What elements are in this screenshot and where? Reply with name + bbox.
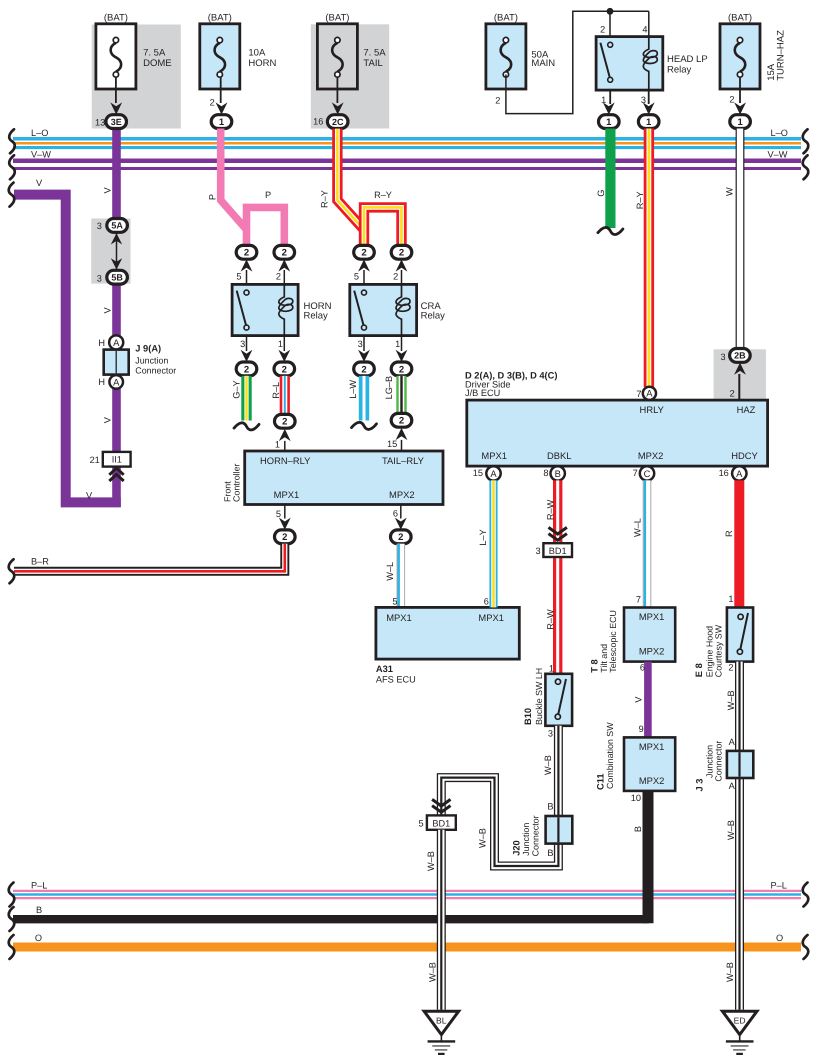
svg-text:W–L: W–L <box>633 518 643 537</box>
svg-text:(BAT): (BAT) <box>104 13 128 24</box>
svg-text:5B: 5B <box>111 272 123 282</box>
svg-text:2: 2 <box>282 364 287 375</box>
svg-text:Relay: Relay <box>304 310 329 321</box>
svg-text:8: 8 <box>543 468 548 478</box>
svg-text:V: V <box>102 416 112 423</box>
svg-text:4: 4 <box>642 24 647 34</box>
svg-text:TAIL–RLY: TAIL–RLY <box>382 455 425 466</box>
svg-text:HORN: HORN <box>248 58 276 69</box>
svg-text:HAZ: HAZ <box>737 404 756 415</box>
svg-text:B: B <box>547 802 553 812</box>
svg-text:3: 3 <box>548 728 553 738</box>
svg-text:1: 1 <box>646 117 652 128</box>
svg-text:J 9(A): J 9(A) <box>135 344 161 354</box>
svg-text:2: 2 <box>399 364 404 375</box>
svg-text:B: B <box>36 905 42 915</box>
svg-text:(BAT): (BAT) <box>494 13 518 24</box>
svg-text:R–Y: R–Y <box>374 190 392 200</box>
svg-text:H: H <box>98 377 105 387</box>
svg-text:1: 1 <box>606 117 612 128</box>
svg-text:MPX1: MPX1 <box>639 611 665 622</box>
svg-text:HRLY: HRLY <box>640 404 665 415</box>
svg-text:2: 2 <box>244 248 249 259</box>
svg-text:7: 7 <box>636 595 641 605</box>
svg-text:Junction: Junction <box>135 356 168 366</box>
svg-text:A: A <box>113 376 120 387</box>
svg-text:2: 2 <box>730 388 735 398</box>
svg-text:10: 10 <box>631 793 641 803</box>
svg-text:MPX2: MPX2 <box>639 775 665 786</box>
svg-text:W–B: W–B <box>428 962 438 982</box>
svg-text:2: 2 <box>244 364 249 375</box>
svg-text:2: 2 <box>600 24 605 34</box>
svg-text:B–R: B–R <box>31 557 49 567</box>
svg-text:MPX2: MPX2 <box>638 450 664 461</box>
svg-text:W–B: W–B <box>726 820 736 840</box>
svg-text:Controller: Controller <box>232 463 242 502</box>
svg-text:W–B: W–B <box>543 755 553 775</box>
svg-text:L–Y: L–Y <box>478 529 488 545</box>
svg-text:Connector: Connector <box>714 741 724 782</box>
svg-text:DOME: DOME <box>143 58 172 69</box>
svg-text:5A: 5A <box>111 221 123 231</box>
svg-text:1: 1 <box>737 117 743 128</box>
svg-text:1: 1 <box>728 594 733 604</box>
svg-text:Buckle SW LH: Buckle SW LH <box>534 668 544 725</box>
svg-text:3: 3 <box>97 221 102 231</box>
svg-text:6: 6 <box>640 663 645 673</box>
svg-text:TAIL: TAIL <box>363 58 382 69</box>
svg-text:DBKL: DBKL <box>547 450 572 461</box>
svg-text:W–B: W–B <box>725 962 735 982</box>
svg-text:3: 3 <box>720 352 725 362</box>
svg-text:2: 2 <box>282 248 287 259</box>
svg-text:9: 9 <box>639 724 644 734</box>
svg-text:15: 15 <box>473 468 483 478</box>
svg-text:MPX1: MPX1 <box>481 450 507 461</box>
svg-text:B: B <box>633 826 643 832</box>
svg-text:W–B: W–B <box>426 851 436 871</box>
svg-text:B10: B10 <box>523 708 533 725</box>
svg-text:A31: A31 <box>376 664 393 674</box>
svg-text:V: V <box>633 696 643 703</box>
svg-text:3: 3 <box>240 339 245 349</box>
svg-text:A: A <box>729 737 736 747</box>
svg-text:2: 2 <box>729 94 734 104</box>
svg-text:1: 1 <box>219 117 225 128</box>
svg-text:1: 1 <box>275 440 280 450</box>
svg-text:2: 2 <box>399 248 404 259</box>
svg-text:2: 2 <box>393 272 398 282</box>
svg-text:A: A <box>729 781 736 791</box>
svg-text:2: 2 <box>276 272 281 282</box>
svg-text:B: B <box>547 848 553 858</box>
svg-text:G: G <box>596 190 606 197</box>
svg-text:(BAT): (BAT) <box>208 13 232 24</box>
svg-text:W–B: W–B <box>726 690 736 710</box>
svg-text:R: R <box>724 530 734 537</box>
svg-text:P: P <box>265 190 271 200</box>
svg-text:II1: II1 <box>112 455 122 465</box>
svg-text:V: V <box>102 187 112 194</box>
svg-text:V: V <box>36 178 43 188</box>
svg-text:3E: 3E <box>111 117 122 127</box>
svg-text:E 8: E 8 <box>694 663 704 677</box>
svg-text:MAIN: MAIN <box>531 58 555 69</box>
svg-text:Relay: Relay <box>421 310 446 321</box>
svg-text:2: 2 <box>495 96 500 106</box>
svg-text:6: 6 <box>484 596 489 606</box>
svg-text:MPX2: MPX2 <box>389 489 415 500</box>
svg-text:A: A <box>490 468 497 479</box>
svg-text:Junction: Junction <box>521 823 531 856</box>
svg-text:2: 2 <box>399 416 404 427</box>
svg-text:B: B <box>555 468 561 479</box>
svg-text:16: 16 <box>313 117 323 127</box>
svg-text:A: A <box>113 337 120 348</box>
svg-text:(BAT): (BAT) <box>325 13 349 24</box>
svg-text:Relay: Relay <box>667 65 692 76</box>
svg-text:15: 15 <box>387 439 397 449</box>
svg-text:P: P <box>207 194 217 200</box>
svg-text:MPX1: MPX1 <box>386 612 412 623</box>
svg-text:16: 16 <box>719 468 729 478</box>
svg-text:L–O: L–O <box>31 128 48 138</box>
svg-text:MPX1: MPX1 <box>639 741 665 752</box>
svg-text:2B: 2B <box>734 351 746 361</box>
svg-text:P–L: P–L <box>771 880 787 890</box>
svg-text:BD1: BD1 <box>432 818 450 828</box>
svg-text:1: 1 <box>395 339 400 349</box>
svg-text:3: 3 <box>358 339 363 349</box>
svg-text:O: O <box>776 933 783 943</box>
svg-text:J 3: J 3 <box>695 779 705 792</box>
svg-text:5: 5 <box>276 509 281 519</box>
svg-text:L–W: L–W <box>348 380 358 399</box>
svg-text:1: 1 <box>549 663 554 673</box>
svg-text:(BAT): (BAT) <box>728 13 752 24</box>
svg-text:A: A <box>646 388 653 399</box>
svg-text:Combination SW: Combination SW <box>605 722 615 789</box>
svg-text:W–L: W–L <box>385 562 395 581</box>
svg-text:5: 5 <box>354 272 359 282</box>
svg-text:2C: 2C <box>332 117 344 127</box>
svg-text:LG–B: LG–B <box>384 376 394 400</box>
svg-text:ED: ED <box>734 1016 746 1026</box>
svg-text:MPX1: MPX1 <box>274 489 300 500</box>
svg-text:P–L: P–L <box>31 880 47 890</box>
svg-text:7: 7 <box>636 389 641 399</box>
svg-text:7: 7 <box>633 468 638 478</box>
svg-text:J/B ECU: J/B ECU <box>465 388 500 398</box>
svg-text:13: 13 <box>95 117 105 127</box>
svg-text:3: 3 <box>535 546 540 556</box>
svg-text:2: 2 <box>398 532 403 543</box>
svg-text:O: O <box>35 933 42 943</box>
svg-text:2: 2 <box>361 364 366 375</box>
svg-text:6: 6 <box>393 508 398 518</box>
svg-text:2: 2 <box>728 663 733 673</box>
svg-text:MPX2: MPX2 <box>639 646 665 657</box>
svg-text:1: 1 <box>278 339 283 349</box>
svg-text:2: 2 <box>210 97 215 107</box>
svg-text:3: 3 <box>97 273 102 283</box>
svg-text:V–W: V–W <box>31 150 51 160</box>
svg-text:MPX1: MPX1 <box>478 612 504 623</box>
svg-text:R–W: R–W <box>545 499 555 520</box>
svg-text:2: 2 <box>282 532 287 543</box>
svg-text:V: V <box>102 307 112 314</box>
svg-text:V: V <box>86 490 93 500</box>
svg-text:5: 5 <box>392 596 397 606</box>
svg-text:R–L: R–L <box>271 382 281 399</box>
svg-text:V–W: V–W <box>768 150 788 160</box>
svg-text:W: W <box>725 187 735 196</box>
svg-text:L–O: L–O <box>771 128 788 138</box>
svg-text:HDCY: HDCY <box>731 450 758 461</box>
svg-text:R–Y: R–Y <box>635 191 645 209</box>
svg-text:TURN–HAZ: TURN–HAZ <box>776 30 787 81</box>
svg-text:A: A <box>736 468 743 479</box>
svg-text:J20: J20 <box>512 840 522 856</box>
svg-text:AFS ECU: AFS ECU <box>376 675 416 685</box>
svg-text:Telescopic ECU: Telescopic ECU <box>608 610 618 673</box>
svg-text:Connector: Connector <box>531 815 541 856</box>
svg-text:G–Y: G–Y <box>231 380 241 398</box>
svg-text:R–W: R–W <box>545 609 555 630</box>
svg-text:R–Y: R–Y <box>319 190 329 208</box>
svg-text:HEAD LP: HEAD LP <box>667 54 708 65</box>
svg-text:W–B: W–B <box>478 828 488 848</box>
svg-text:21: 21 <box>90 455 100 465</box>
svg-text:HORN–RLY: HORN–RLY <box>260 455 311 466</box>
svg-text:5: 5 <box>236 272 241 282</box>
svg-text:2: 2 <box>282 417 287 428</box>
svg-text:C: C <box>644 468 651 479</box>
svg-text:Connector: Connector <box>135 366 176 376</box>
svg-text:5: 5 <box>418 819 423 829</box>
svg-text:Courtesy SW: Courtesy SW <box>714 624 724 677</box>
svg-text:H: H <box>98 338 105 348</box>
svg-text:BD1: BD1 <box>549 546 567 556</box>
svg-text:BL: BL <box>436 1016 447 1026</box>
svg-text:2: 2 <box>361 248 366 259</box>
